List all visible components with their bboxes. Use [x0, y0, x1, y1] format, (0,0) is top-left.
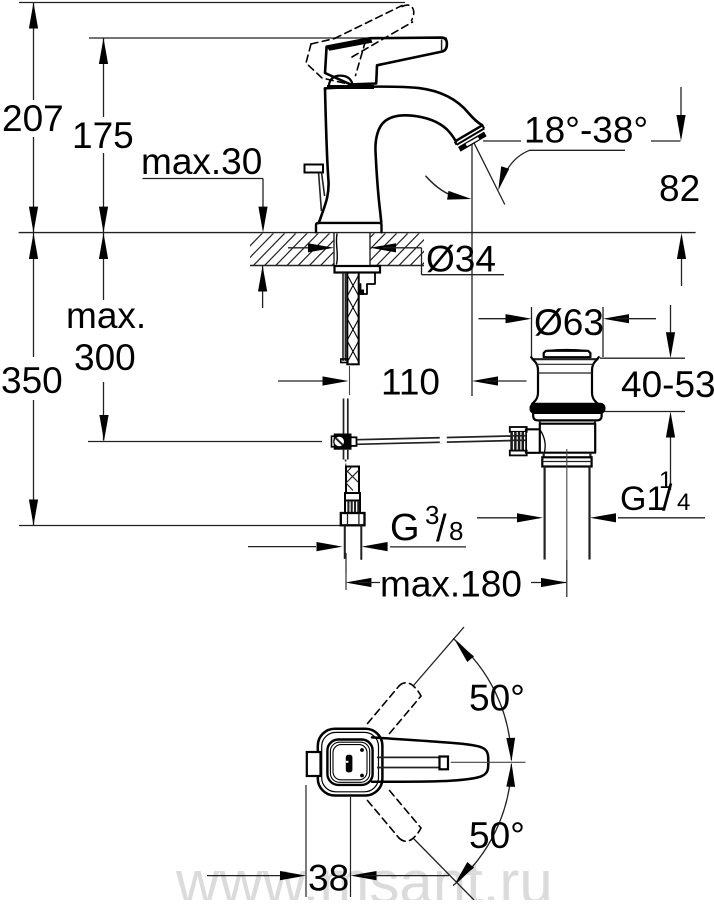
dim 82 upper line [680, 87, 682, 120]
18-38 leader line [530, 149, 626, 151]
tailpipe coupling ring [542, 457, 591, 466]
spout tip left edge [455, 142, 457, 145]
aerator dark band [458, 132, 487, 152]
clamp screw slot [336, 438, 343, 445]
lower arc arrowhead at centerline [506, 763, 515, 787]
mounting bracket step [358, 273, 375, 295]
dim 34 right tail [383, 247, 422, 249]
dim 350 bottom arrow [29, 500, 38, 526]
rod centerline dash [345, 464, 347, 468]
18-38 arc arrowhead [498, 166, 509, 190]
hose braid diagonal 3 [346, 483, 353, 491]
rod tip [345, 460, 347, 462]
dim G1-1/4 left tail [477, 517, 530, 519]
tailpipe right edge [588, 467, 590, 560]
dim max.300 top arrow [99, 233, 108, 259]
svg-text:/: / [436, 508, 447, 550]
G3/8 underline / arrow tail [390, 546, 466, 548]
dim max.300 line lower [103, 382, 105, 441]
G3/8 right-pointing arrow [317, 542, 343, 551]
hose right edge extension [360, 527, 362, 560]
dim 40-53 upper line [670, 305, 672, 334]
countertop top line [19, 232, 696, 234]
svg-text:50°: 50° [469, 678, 525, 719]
hose braid diagonal 1 [346, 470, 359, 483]
dashed rotated lever lower edge [352, 22, 413, 57]
svg-text:4: 4 [677, 489, 690, 516]
faucet body left edge [319, 89, 329, 224]
dim 63 right tail [616, 318, 656, 320]
svg-text:350: 350 [1, 360, 63, 401]
dim 38 left tail [207, 875, 280, 877]
dim 110 left arrow [323, 376, 349, 385]
knurled knob ribbed middle [510, 432, 526, 451]
drain plug cap [544, 351, 591, 357]
spray angle slanted line [473, 142, 504, 205]
flow direction arrowhead [447, 191, 471, 200]
dim 350 line lower [33, 400, 35, 526]
svg-text:300: 300 [74, 337, 136, 378]
upper arc arrowhead at line [455, 641, 474, 662]
rod below clamp right [347, 449, 349, 460]
dim 82 up arrow [677, 233, 686, 259]
drain flange left side [531, 357, 538, 404]
dim 207 line lower [33, 137, 35, 233]
threaded shank tube [347, 273, 358, 365]
dim 82 down arrow [676, 115, 685, 141]
plan view escutcheon outer outline [318, 729, 383, 796]
82 upper reference line left part [483, 140, 521, 142]
svg-text:G: G [390, 507, 420, 549]
63 left extension line [531, 307, 533, 358]
supply pipe right edge [360, 525, 362, 559]
pull rod left line under deck [342, 273, 344, 362]
dim max.300 line upper [103, 233, 105, 300]
dashed plan lever upper-left edge (down position) [368, 801, 400, 839]
40-53 lower extension line [603, 411, 685, 413]
drain valve body and rod boss [526, 424, 595, 453]
max.30 lower extension [262, 266, 264, 309]
drain plug cap dome top [547, 350, 588, 351]
dim 40-53 lower line [670, 437, 672, 490]
dim 38 right extension [350, 797, 352, 897]
40-53 upper extension line [600, 357, 685, 359]
dim G1-1/4 left arrow [517, 513, 543, 522]
G3/8 small arrow tail [248, 546, 316, 548]
knurled knob top cap [510, 427, 527, 432]
clamp screw [334, 436, 345, 447]
max.30 arrow onto deck bottom [258, 266, 267, 292]
dim 207 bottom arrow [29, 207, 38, 233]
dim 175 top arrow [99, 38, 108, 64]
dim 38 left extension [305, 785, 307, 897]
upper 50deg arc [454, 639, 512, 760]
max.180 left extension [345, 553, 347, 590]
dim 175 line lower [103, 153, 105, 233]
body step left [543, 453, 545, 458]
hose curve in mounting hole [335, 234, 338, 264]
dashed plan lever tip cap (down position) [399, 828, 421, 841]
svg-text:40-53: 40-53 [621, 364, 714, 405]
countertop bottom line right of hole [370, 265, 424, 267]
plan view lever outline [372, 737, 488, 781]
max.180 left arrow [345, 578, 371, 587]
logo notch [346, 761, 349, 763]
dim 34 leader step [421, 248, 423, 275]
svg-text:max.: max. [66, 295, 146, 336]
index dot lower [360, 774, 364, 778]
dashed plan lever lower-right edge (down position) [390, 791, 422, 829]
countertop bottom line left of hole [250, 265, 334, 267]
pull rod right line under deck [344, 273, 346, 362]
valve body inner curve [541, 431, 546, 453]
pop-up rod behind body line 1 [319, 173, 322, 211]
plan lever tip box [440, 757, 449, 770]
max.300 bottom reference line / rod extension [88, 441, 322, 443]
dim 110 left tail [278, 380, 335, 382]
handle lever side view [325, 38, 447, 85]
aerator screen slot [466, 137, 480, 146]
plan view handle head outer [327, 740, 372, 785]
upper arc arrowhead at centerline [506, 738, 515, 762]
hose braid diagonal 4 [346, 467, 352, 474]
drain flange top edge [532, 358, 599, 360]
18-38 leader arc [503, 150, 529, 177]
dim 40-53 down arrow [666, 332, 675, 358]
mounting hole left edge [333, 233, 335, 266]
handle tip cap line [441, 39, 443, 51]
dim 38 left arrow [280, 871, 306, 880]
hose braid diagonal 2 [346, 470, 359, 483]
tailpipe left edge [543, 467, 545, 560]
pop-up rod behind body line 2 [322, 173, 325, 196]
svg-text:Ø34: Ø34 [426, 239, 496, 280]
dim max.300 bottom arrow [99, 415, 108, 441]
braided hose upper section [346, 467, 359, 494]
pop-up rod knob side view [305, 165, 324, 173]
faucet spout underside curve and body right edge [375, 115, 456, 222]
dim 350 top arrow [29, 233, 38, 259]
svg-text:18°-38°: 18°-38° [524, 110, 648, 151]
lower 50deg arc [454, 765, 512, 886]
dim 63 right arrow [603, 314, 629, 323]
lower arc arrowhead at line [455, 862, 474, 883]
horizontal pop-up rod bottom line [357, 441, 511, 445]
50deg lower angle line [414, 839, 475, 901]
rod end bottom at knob [511, 439, 526, 441]
G3/8 left-pointing arrow [362, 542, 388, 551]
dim 110 right arrow [472, 376, 498, 385]
plan view handle head inner line [330, 742, 369, 782]
drain flange inner line 1 [536, 363, 595, 365]
dim G1-1/4 right arrow [590, 513, 616, 522]
svg-text:50°: 50° [469, 815, 525, 856]
dim 63 left tail [479, 318, 519, 320]
rod break gap [440, 433, 447, 443]
dim 63 left arrow [506, 314, 532, 323]
svg-text:max.30: max.30 [141, 141, 262, 182]
dim 207 top arrow [29, 3, 38, 29]
max.30 arrow onto deck top [258, 207, 267, 233]
dashed rotated handle top edge [311, 39, 335, 45]
mounting washer under deck [335, 266, 381, 273]
vertical pop-up rod right line [347, 399, 349, 438]
svg-text:max.180: max.180 [380, 564, 522, 605]
dim 34 left tail [288, 247, 321, 249]
knurled knob bottom cap [510, 451, 527, 456]
dashed rotated handle inner edge [356, 41, 366, 76]
faucet spout top edge [325, 87, 482, 126]
dashed plan lever lower-right edge (up position) [390, 696, 422, 734]
spout tip face lower seam [457, 129, 485, 145]
vertical pop-up rod left line [343, 399, 345, 438]
plan view rear knob tab [307, 752, 321, 776]
dim 40-53 up arrow [666, 412, 675, 438]
plan lever neck top line [377, 756, 440, 758]
dim 34 right arrow [370, 243, 396, 252]
locknut to body left [539, 420, 541, 423]
dim 38 right tail [364, 875, 449, 877]
dim 34 underline [422, 274, 505, 276]
supply pipe left edge [344, 525, 346, 558]
top reference line (handle max height) [19, 2, 405, 4]
shank cross hatch [347, 275, 358, 296]
G3/8 connection nut [341, 513, 365, 525]
max.180 left stub [358, 582, 380, 584]
175 reference line (spout top level) [89, 37, 447, 39]
max.180 right stub [531, 582, 566, 584]
cartridge dome under handle [329, 76, 353, 85]
pull rod foot [341, 359, 348, 363]
coupling ring inner line [542, 461, 591, 463]
max.30 leader vertical [262, 179, 264, 211]
spout tip face upper seam [455, 125, 483, 141]
dim 350 line upper [33, 233, 35, 357]
svg-text:38: 38 [308, 858, 349, 899]
spout tip right edge [482, 125, 484, 128]
faucet base plate [316, 223, 382, 233]
max.30 leader underline [143, 178, 264, 180]
dim 34 left arrow [308, 243, 334, 252]
svg-text:82: 82 [659, 168, 700, 209]
clamp right cap [351, 437, 357, 446]
handle base dark band [327, 85, 374, 89]
plan lever neck bottom line [377, 767, 440, 769]
plan view horizontal centerline [451, 761, 526, 763]
flow direction arc [426, 176, 458, 197]
bracket pin [360, 290, 365, 296]
drain O-ring seal [530, 403, 605, 413]
drain locknut [533, 414, 601, 421]
rod end top at knob [511, 435, 526, 437]
handle top face dark edge [327, 38, 373, 51]
drain flange right side [592, 357, 599, 404]
82 upper reference line right part [651, 140, 681, 142]
svg-text:175: 175 [72, 115, 134, 156]
stream axis vertical line [471, 143, 473, 396]
dim 38 right arrow [351, 871, 377, 880]
drain flange inner line 2 [538, 372, 592, 374]
faucet centerline below shank [349, 366, 351, 395]
dim 175 line upper [103, 38, 105, 117]
supply pipe centerline dash [345, 574, 347, 590]
nut facet line left [347, 514, 349, 526]
svg-text:8: 8 [449, 516, 463, 546]
svg-text:110: 110 [381, 362, 440, 403]
grohe logo mark [346, 755, 353, 773]
max.180 right extension (drain centerline ext) [566, 560, 568, 597]
mounting hole right edge [369, 233, 371, 266]
dim 207 line upper [33, 3, 35, 101]
svg-text:/: / [662, 478, 673, 519]
dim 110 right tail [485, 380, 527, 382]
locknut to body right [594, 420, 596, 423]
dashed plan lever tip cap (up position) [399, 683, 421, 696]
clamp left cap [332, 436, 335, 447]
body step right [589, 453, 591, 458]
hose left edge extension [344, 527, 346, 559]
hose collar [345, 493, 360, 501]
hose ribbed section [345, 501, 360, 514]
max.180 right arrow [541, 578, 567, 587]
63 right extension line [602, 307, 604, 357]
rod below clamp left [343, 449, 345, 460]
index dot upper [360, 748, 364, 752]
svg-text:Ø63: Ø63 [534, 302, 604, 343]
dim 82 lower line [681, 252, 683, 286]
dashed plan lever upper-left edge (up position) [368, 686, 400, 724]
dim 175 bottom arrow [99, 207, 108, 233]
350 bottom reference line [19, 525, 341, 527]
dim G1-1/4 right tail [618, 517, 705, 519]
countertop hatching [230, 233, 453, 267]
dashed rotated lever tip cap [402, 5, 414, 20]
dashed rotated handle head outline [306, 44, 363, 88]
dashed rotated lever upper edge [335, 6, 403, 39]
50deg upper angle line [414, 627, 465, 686]
drain centerline [566, 449, 568, 560]
svg-text:207: 207 [2, 98, 64, 139]
plan view escutcheon inner outline [322, 732, 379, 791]
plan view handle head innermost line [333, 745, 367, 780]
clamp body [335, 435, 351, 449]
nut facet line right [358, 514, 360, 526]
horizontal pop-up rod top line [357, 436, 511, 440]
